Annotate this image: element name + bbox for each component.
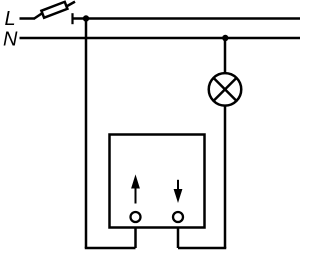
svg-text:N: N (3, 29, 18, 51)
svg-text:L: L (5, 8, 16, 30)
